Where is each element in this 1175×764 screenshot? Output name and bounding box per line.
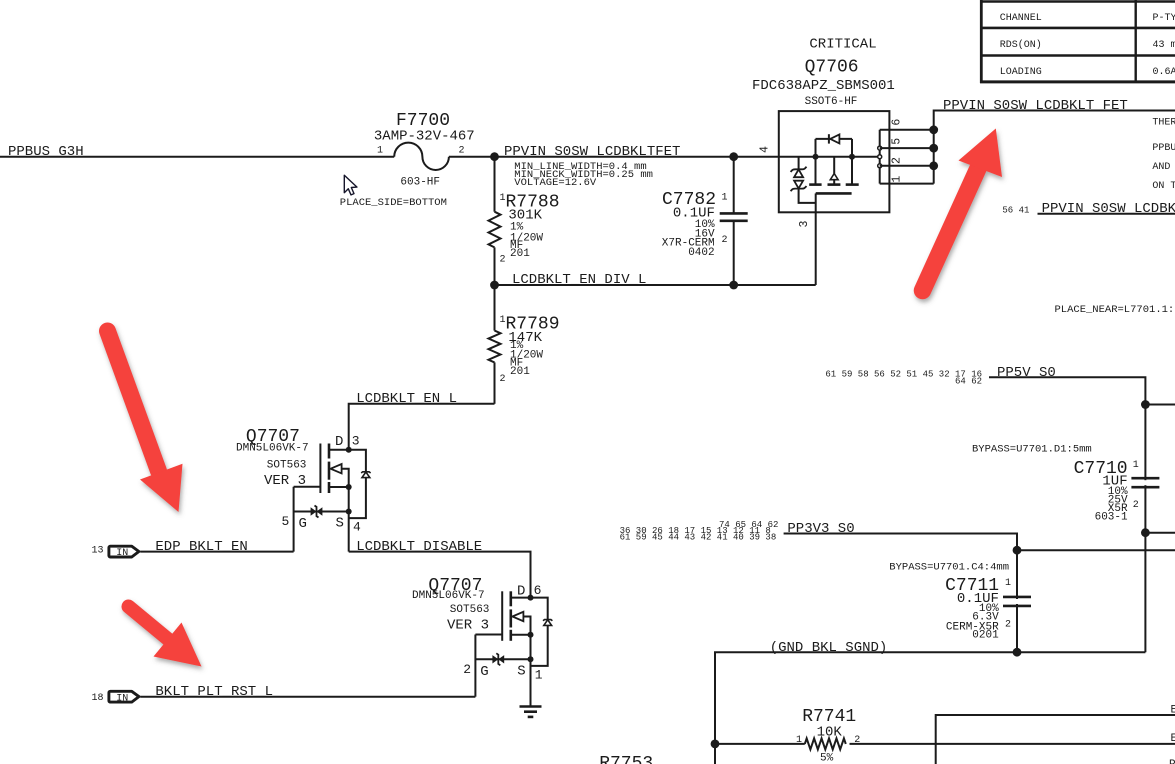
wire BKLT_PLT_RST_L	[140, 684, 475, 700]
svg-text:5: 5	[282, 514, 290, 529]
wire EDP_BKLT_EN	[140, 539, 293, 555]
transistor Q7706 labels	[752, 37, 895, 108]
Q7706 pin 5	[880, 147, 934, 149]
pin labels 6 5 2 1	[891, 119, 904, 183]
svg-text:5%: 5%	[820, 753, 834, 764]
red annotation arrow (upper left)	[108, 331, 183, 512]
svg-text:D: D	[335, 434, 343, 450]
svg-text:0.6A: 0.6A	[1153, 67, 1175, 78]
drain bus vertical	[929, 111, 1175, 184]
svg-text:EDP_BKLT_EN: EDP_BKLT_EN	[155, 539, 247, 555]
Q7706 pin 1	[880, 183, 934, 185]
svg-text:SOT563: SOT563	[450, 604, 490, 616]
svg-text:PPBUS_G3H: PPBUS_G3H	[8, 144, 84, 160]
svg-text:R7753: R7753	[599, 754, 653, 764]
junction at R7789 top	[490, 281, 499, 290]
svg-text:2: 2	[463, 662, 471, 677]
body diode of Q7707 (upper)	[349, 450, 371, 518]
Q7706 channel bar	[809, 183, 859, 186]
svg-text:0201: 0201	[972, 630, 999, 642]
transistor Q7707 (lower) labels	[412, 576, 543, 682]
svg-text:PP5V_S0: PP5V_S0	[997, 365, 1056, 381]
svg-text:61 59 45 44 43 42 41 40 39 38: 61 59 45 44 43 42 41 40 39 38	[620, 533, 777, 543]
svg-text:ED: ED	[1171, 705, 1175, 717]
svg-text:4: 4	[759, 146, 772, 153]
resistor R7789	[489, 285, 560, 404]
fuse F7700	[340, 111, 475, 209]
svg-text:P-TYPE: P-TYPE	[1153, 13, 1175, 24]
svg-text:PPVIN_S0SW_LCDBKLTFET: PPVIN_S0SW_LCDBKLTFET	[504, 144, 680, 160]
svg-text:ED: ED	[1171, 733, 1175, 745]
svg-text:13: 13	[92, 546, 104, 557]
svg-text:PPBU: PPBU	[1152, 143, 1175, 154]
svg-text:THER: THER	[1152, 118, 1175, 129]
svg-text:4: 4	[353, 520, 361, 535]
wire LCDBKLT_DISABLE	[349, 539, 531, 598]
svg-text:PLACE_SIDE=BOTTOM: PLACE_SIDE=BOTTOM	[340, 197, 447, 209]
svg-text:ON T: ON T	[1152, 181, 1175, 192]
svg-text:G: G	[480, 664, 488, 680]
note text (clipped right)	[1152, 118, 1175, 192]
svg-text:1: 1	[722, 192, 728, 203]
wire PPBUS_G3H to fuse	[0, 156, 394, 158]
svg-text:(GND_BKL_SGND): (GND_BKL_SGND)	[770, 640, 888, 656]
svg-text:PLACE_NEAR=L7701.1:: PLACE_NEAR=L7701.1:	[1055, 304, 1175, 316]
svg-text:IN: IN	[116, 693, 128, 704]
capacitor C7782	[662, 157, 748, 285]
svg-text:S: S	[336, 516, 344, 532]
Q7706 gate bar	[816, 192, 852, 195]
svg-text:603-HF: 603-HF	[400, 177, 440, 189]
capacitor C7711	[945, 576, 1031, 641]
wire GND_BKL_SGND	[715, 640, 1145, 764]
svg-text:1: 1	[891, 176, 904, 183]
junction PP5V lower branch	[1141, 528, 1175, 537]
svg-text:2: 2	[1133, 500, 1139, 511]
svg-text:PP3V3_S0: PP3V3_S0	[787, 521, 854, 537]
source wire of Q7707 (upper) to LCDBKLT_DISABLE	[348, 512, 350, 552]
transistor Q7707 (lower) symbol	[502, 591, 533, 662]
pin numbers above PP5V_S0	[825, 370, 982, 387]
svg-text:64 62: 64 62	[955, 377, 982, 387]
svg-text:LOADING: LOADING	[1000, 67, 1042, 78]
transistor Q7706 package box	[779, 111, 890, 212]
svg-text:FDC638APZ_SBMS001: FDC638APZ_SBMS001	[752, 78, 895, 94]
mouse cursor	[344, 175, 357, 195]
svg-text:SOT563: SOT563	[267, 459, 307, 471]
svg-text:S: S	[517, 663, 525, 679]
junction at C7782 bottom	[729, 281, 738, 290]
junction PP5V branch	[1141, 400, 1175, 409]
Q7706 substrate arrow	[830, 157, 838, 184]
net fragments at right edge	[1169, 705, 1175, 764]
svg-text:PP: PP	[1169, 759, 1175, 764]
svg-text:VOLTAGE=12.6V: VOLTAGE=12.6V	[514, 177, 597, 189]
junction PP3V3 branch	[1013, 546, 1175, 555]
capacitor C7710	[1074, 459, 1160, 524]
svg-text:3AMP-32V-467: 3AMP-32V-467	[374, 128, 475, 144]
resistor R7788	[489, 157, 560, 285]
svg-text:6: 6	[534, 583, 542, 598]
svg-text:1: 1	[1005, 578, 1011, 589]
wire node PPVIN_S0SW_LCDBKLTFET	[449, 156, 880, 158]
svg-text:2: 2	[1005, 620, 1011, 631]
svg-text:0402: 0402	[688, 247, 714, 259]
port 18 IN BKLT_PLT_RST_L	[92, 691, 139, 704]
wire LCDBKLT_EN_L	[349, 391, 495, 450]
svg-text:Q7706: Q7706	[805, 58, 859, 78]
svg-text:2: 2	[722, 235, 728, 246]
red annotation arrow (top right)	[923, 129, 1003, 291]
svg-text:1: 1	[1133, 460, 1139, 471]
ground	[520, 707, 542, 717]
gate-source zener of Q7707 (lower)	[475, 653, 530, 665]
gate wire of Q7707 (lower)	[475, 635, 502, 697]
svg-text:LCDBKLT_DISABLE: LCDBKLT_DISABLE	[356, 539, 482, 555]
transistor Q7707 (upper) labels	[236, 427, 361, 534]
svg-text:BYPASS=U7701.D1:5mm: BYPASS=U7701.D1:5mm	[972, 443, 1092, 455]
junction node at R7788 top	[490, 152, 499, 161]
Q7706 gate to pin 3	[815, 193, 817, 212]
parameter table (top right, clipped)	[980, 0, 1175, 83]
svg-text:2: 2	[891, 157, 904, 164]
svg-text:VER 3: VER 3	[447, 617, 489, 633]
junction C7711 bottom	[1013, 648, 1022, 657]
svg-text:3: 3	[352, 433, 360, 448]
svg-text:DMN5L06VK-7: DMN5L06VK-7	[236, 443, 309, 455]
svg-text:G: G	[299, 516, 307, 532]
net label PPBUS_G3H	[8, 144, 84, 160]
svg-text:2: 2	[459, 145, 465, 156]
svg-text:10K: 10K	[817, 725, 843, 741]
svg-text:6: 6	[891, 119, 904, 126]
pin numbers above PP3V3_S0	[620, 520, 779, 543]
Q7706 internal body diode	[816, 134, 856, 184]
svg-text:2: 2	[500, 255, 506, 266]
Q7706 pin 6	[880, 129, 934, 131]
junction R7741 left	[711, 740, 720, 749]
transistor Q7707 (upper) symbol	[320, 444, 351, 515]
red annotation arrow (lower left)	[129, 607, 202, 667]
wire LCDBKLT_EN_DIV_L	[495, 212, 816, 288]
svg-text:43 mOHM: 43 mOHM	[1153, 40, 1175, 51]
resistor R7741	[715, 707, 1175, 764]
svg-text:1: 1	[377, 145, 383, 156]
svg-text:LCDBKLT_EN_L: LCDBKLT_EN_L	[356, 391, 457, 407]
svg-text:RDS(ON): RDS(ON)	[1000, 39, 1042, 51]
svg-text:201: 201	[510, 248, 530, 260]
source wire of Q7707 (lower) to ground	[530, 659, 532, 706]
svg-text:1: 1	[535, 667, 543, 682]
gate-source zener of Q7707 (upper)	[294, 506, 349, 518]
svg-text:3: 3	[798, 220, 811, 227]
svg-text:603-1: 603-1	[1095, 512, 1128, 524]
svg-text:BKLT_PLT_RST_L: BKLT_PLT_RST_L	[155, 684, 273, 700]
wire PP5V_S0	[989, 377, 1145, 652]
gate wire of Q7707 (upper)	[294, 487, 321, 552]
port 13 IN EDP_BKLT_EN	[92, 546, 139, 560]
Q7706 internal source vertical	[813, 139, 819, 184]
svg-text:CRITICAL: CRITICAL	[809, 37, 876, 53]
Q7706 gate zener pair	[791, 157, 816, 203]
svg-text:BYPASS=U7701.C4:4mm: BYPASS=U7701.C4:4mm	[889, 562, 1009, 574]
svg-text:1: 1	[796, 735, 802, 746]
svg-text:SSOT6-HF: SSOT6-HF	[805, 96, 858, 108]
junction node at C7782 top	[729, 152, 738, 161]
svg-text:LCDBKLT_EN_DIV_L: LCDBKLT_EN_DIV_L	[512, 272, 646, 288]
Q7706 pin 2	[880, 165, 934, 167]
svg-text:2: 2	[500, 374, 506, 385]
svg-text:CHANNEL: CHANNEL	[1000, 13, 1042, 24]
net label PPVIN_S0SW_LCDBKLT_FET (right, clipped)	[1002, 201, 1175, 217]
svg-text:AND: AND	[1152, 162, 1170, 173]
Q7706 drain rail	[878, 130, 882, 184]
body diode of Q7707 (lower)	[531, 598, 553, 666]
svg-text:18: 18	[92, 693, 104, 704]
svg-text:5: 5	[891, 138, 904, 145]
wire bottom right net	[936, 715, 1175, 764]
svg-text:201: 201	[510, 366, 530, 378]
svg-text:56 41: 56 41	[1002, 206, 1029, 216]
svg-text:PPVIN_S0SW_LCDBKLT_FET: PPVIN_S0SW_LCDBKLT_FET	[943, 98, 1128, 114]
svg-text:DMN5L06VK-7: DMN5L06VK-7	[412, 590, 485, 602]
svg-text:IN: IN	[116, 548, 128, 559]
svg-text:2: 2	[854, 735, 860, 746]
net label PPVIN_S0SW_LCDBKLTFET	[504, 144, 680, 189]
wire PP3V3_S0	[784, 534, 1017, 653]
